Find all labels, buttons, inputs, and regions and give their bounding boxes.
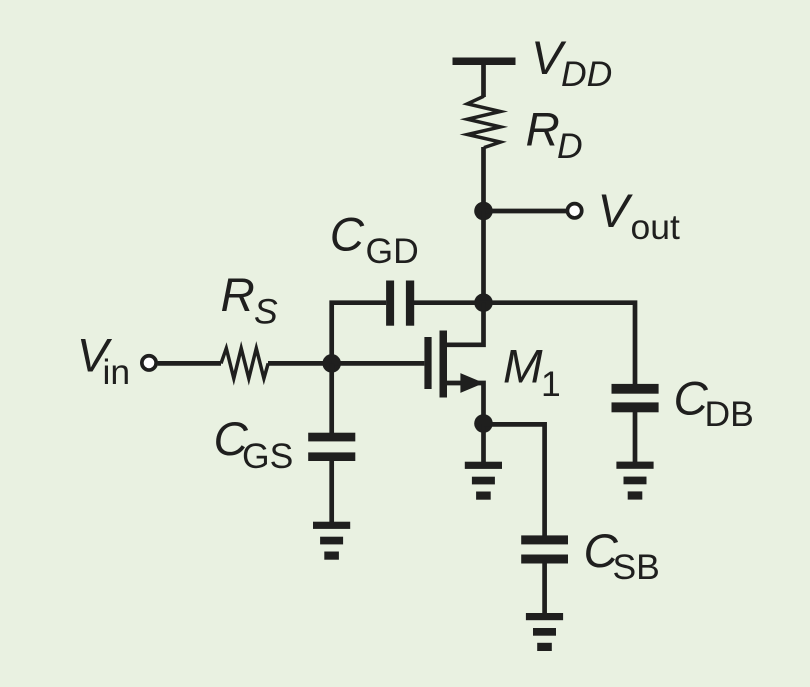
svg-text:RD: RD [526,104,583,167]
node drain junction [474,293,493,312]
wire drain node to CDB [484,303,636,385]
capacitor CGS [308,433,355,442]
wire source node to CSB [484,424,545,536]
wire RS to gate node [268,361,332,366]
svg-text:CGS: CGS [214,413,294,476]
wire source node to ground [481,424,486,463]
transistor M1 gate bar [424,337,431,389]
capacitor CDB [612,384,659,394]
wire Vout node to output terminal [484,209,569,214]
wire drain node to M1 drain [447,303,484,345]
wire Vout node to drain node [481,211,486,303]
wire VDD bar to RD [481,63,486,97]
node source junction [474,414,493,433]
svg-text:M1: M1 [503,341,561,404]
wire gate node to CGS [329,363,334,433]
terminal Vout open circle [567,204,581,218]
wire CGS to ground [329,461,334,522]
resistor RS [221,348,268,378]
ground source [465,462,502,500]
wire CSB to ground [542,564,547,614]
svg-text:Vin: Vin [77,330,130,393]
capacitor CGD [386,281,394,326]
node gate junction [322,354,341,373]
node Vout junction [474,202,493,221]
transistor M1 source arrow [460,373,484,393]
VDD supply bar [453,58,516,66]
wire RD to Vout node [481,147,486,211]
transistor M1 source lead [447,383,484,424]
wire drain node to CGD right plate [414,300,484,305]
ground CDB [616,462,653,500]
svg-text:CSB: CSB [584,525,660,587]
ground CSB [526,613,563,651]
terminal Vin open circle [142,356,156,370]
wire CDB to ground [633,412,638,463]
transistor M1 channel bar [440,331,448,398]
svg-text:CGD: CGD [330,209,419,272]
ground CGS [313,522,350,560]
svg-text:VDD: VDD [531,32,612,94]
svg-text:Vout: Vout [598,185,680,247]
wire gate node to M1 gate [332,361,425,366]
wire CGD left plate to gate node [332,303,386,364]
svg-text:RS: RS [221,269,279,332]
resistor RD [467,96,500,147]
svg-text:CDB: CDB [674,373,754,435]
wire Vin to RS [158,361,221,366]
capacitor CSB [521,535,568,544]
